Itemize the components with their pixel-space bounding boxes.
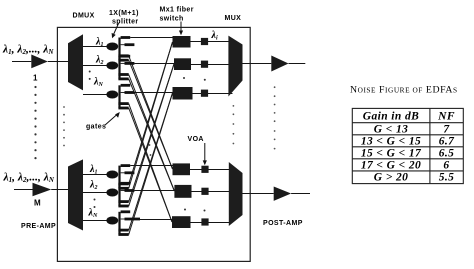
wire B1 to BSW1 (130, 165, 172, 167)
wire B1 tap3 to TSW1 (129, 42, 173, 184)
wire DMUX1 row1 (83, 46, 107, 48)
wire S1 tap4 to BSW1 (129, 60, 173, 169)
svg-text:7: 7 (443, 123, 450, 135)
dots between BSW2 BSW3 (184, 209, 206, 212)
dots column left of MUXes (233, 105, 235, 144)
svg-text:G > 20: G > 20 (374, 172, 409, 184)
fiber switch BSW1 (173, 163, 191, 175)
VOA T3 (201, 90, 208, 97)
svg-text:gates: gates (86, 124, 106, 131)
svg-text:5.5: 5.5 (439, 172, 455, 184)
wire ampM to DMUXM (51, 189, 68, 191)
post-amp triangle top (271, 56, 288, 72)
svg-text:MUX: MUX (225, 15, 242, 22)
wire DMUX1 row3 (83, 94, 107, 96)
wire S2 to TSW2 (134, 63, 174, 65)
svg-text:VOA: VOA (188, 136, 204, 143)
VOA B1 (201, 166, 208, 173)
fiber switch TSW3 (173, 87, 193, 100)
outer box frame (57, 27, 250, 261)
wire S3 tap4 to BSW3 (129, 108, 172, 222)
post-amp triangle bottom (274, 187, 291, 201)
wire S3 tap3 to BSW3 (129, 104, 172, 222)
svg-text:6.5: 6.5 (439, 147, 455, 159)
svg-text:switch: switch (160, 16, 184, 23)
MUX M trapezoid (229, 162, 243, 226)
wire S1 tap3 to BSW1 (129, 56, 173, 169)
splitter S3 comb (118, 84, 134, 110)
splitter B1 comb (118, 164, 134, 190)
fiber switch BSW3 (172, 216, 191, 228)
wire post-amp bottom out (291, 193, 310, 195)
dots column below post-amp top (274, 86, 276, 149)
dots column below 1 (34, 86, 36, 159)
wire S2 tap3 to BSW2 (129, 75, 175, 192)
svg-text:POST-AMP: POST-AMP (263, 220, 303, 227)
gate ellipse B1 (106, 171, 118, 179)
wire B2 to BSW2 (134, 190, 174, 192)
arrow VOA to B1 voa (204, 143, 206, 162)
wire input line 1 (12, 61, 31, 63)
wire BSW1 to MUXM (190, 169, 231, 171)
wire input line M (14, 189, 33, 191)
table frame (352, 108, 463, 183)
gate ellipse S2 (106, 62, 118, 70)
arrow gates to S3 comb (105, 115, 118, 126)
VOA T2 (201, 61, 208, 68)
dots between TSW2 TSW3 (183, 77, 206, 81)
wire post-amp top out (289, 63, 306, 65)
wire DMUXM row3 (83, 220, 107, 222)
DMUX 1 trapezoid (68, 34, 83, 90)
wire MUXM output (243, 193, 274, 195)
svg-text:G < 13: G < 13 (374, 123, 409, 135)
svg-text:NF: NF (437, 111, 455, 123)
splitter S1 comb (118, 36, 134, 62)
gate ellipse B2 (106, 189, 118, 197)
DMUX M trapezoid (68, 159, 83, 230)
wire TSW2 to MUX1 (191, 64, 231, 66)
wire TSW3 to MUX1 (193, 93, 233, 95)
svg-text:1: 1 (33, 74, 38, 83)
dots middle crossing (149, 144, 152, 156)
dots between row2 row3 bottom (94, 199, 96, 209)
fiber switch BSW2 (174, 185, 191, 198)
dots column inside left border (63, 106, 65, 146)
wire S2 tap4 to BSW2 (129, 79, 175, 191)
svg-text:PRE-AMP: PRE-AMP (21, 223, 56, 230)
wire BSW2 to MUXM (192, 191, 230, 193)
fiber switch TSW2 (174, 58, 191, 70)
wire B3 to BSW3 (140, 219, 172, 221)
wire crossbar diagonals: splitter outputs to far switches (129, 42, 175, 235)
gate ellipse S3 (106, 91, 118, 99)
gate ellipse B3 (106, 217, 118, 225)
wire B2 tap3 to TSW2 (129, 64, 174, 202)
wire B3 tap4 to TSW3 (129, 93, 173, 235)
wire DMUXM row1 (83, 174, 107, 176)
svg-text:15 < G < 17: 15 < G < 17 (361, 147, 422, 159)
arrow switch label to TSW1 (180, 22, 182, 32)
wire TSW1 to MUX1 (191, 41, 230, 43)
wire B1 tap4 to TSW1 (129, 42, 173, 188)
wire B3 tap3 to TSW3 (129, 93, 173, 230)
svg-text:Mx1 fiber: Mx1 fiber (160, 7, 194, 14)
wire BSW3 to MUXM (191, 222, 232, 224)
wire B2 tap4 to TSW2 (129, 64, 174, 206)
gate ellipse S1 (106, 43, 118, 51)
svg-text:6.7: 6.7 (439, 135, 455, 147)
fiber switch TSW1 (173, 36, 191, 48)
svg-text:NOISE FIGURE OF EDFAS: NOISE FIGURE OF EDFAS (350, 85, 458, 96)
arrow splitter label to S1 (114, 24, 119, 35)
pre-amp triangle unit 1 (31, 55, 48, 69)
wire MUX1 output (243, 63, 272, 65)
svg-text:13 < G < 15: 13 < G < 15 (361, 135, 421, 147)
splitter B2 comb (118, 182, 134, 208)
wire DMUXM row2 (83, 192, 107, 194)
svg-text:Gain in dB: Gain in dB (363, 111, 419, 123)
pre-amp triangle unit M (33, 183, 52, 196)
VOA T1 (201, 38, 208, 45)
splitter S2 comb (118, 55, 134, 81)
splitter B3 comb (118, 210, 140, 236)
svg-text:1X(M+1): 1X(M+1) (109, 10, 139, 17)
VOA B2 (201, 188, 208, 195)
svg-text:splitter: splitter (112, 18, 139, 25)
svg-text:17 < G < 20: 17 < G < 20 (361, 159, 421, 171)
svg-text:DMUX: DMUX (73, 13, 95, 20)
svg-text:M: M (34, 199, 41, 208)
wire amp1 to DMUX1 (48, 61, 68, 63)
svg-text:6: 6 (443, 159, 449, 171)
MUX 1 trapezoid (228, 36, 242, 97)
dots between row2 row3 top (89, 71, 91, 80)
wire DMUX1 row2 (83, 65, 107, 67)
wire S1 to TSW1 (130, 37, 172, 39)
wire S3 to TSW3 (134, 92, 172, 94)
VOA B3 (201, 218, 208, 225)
